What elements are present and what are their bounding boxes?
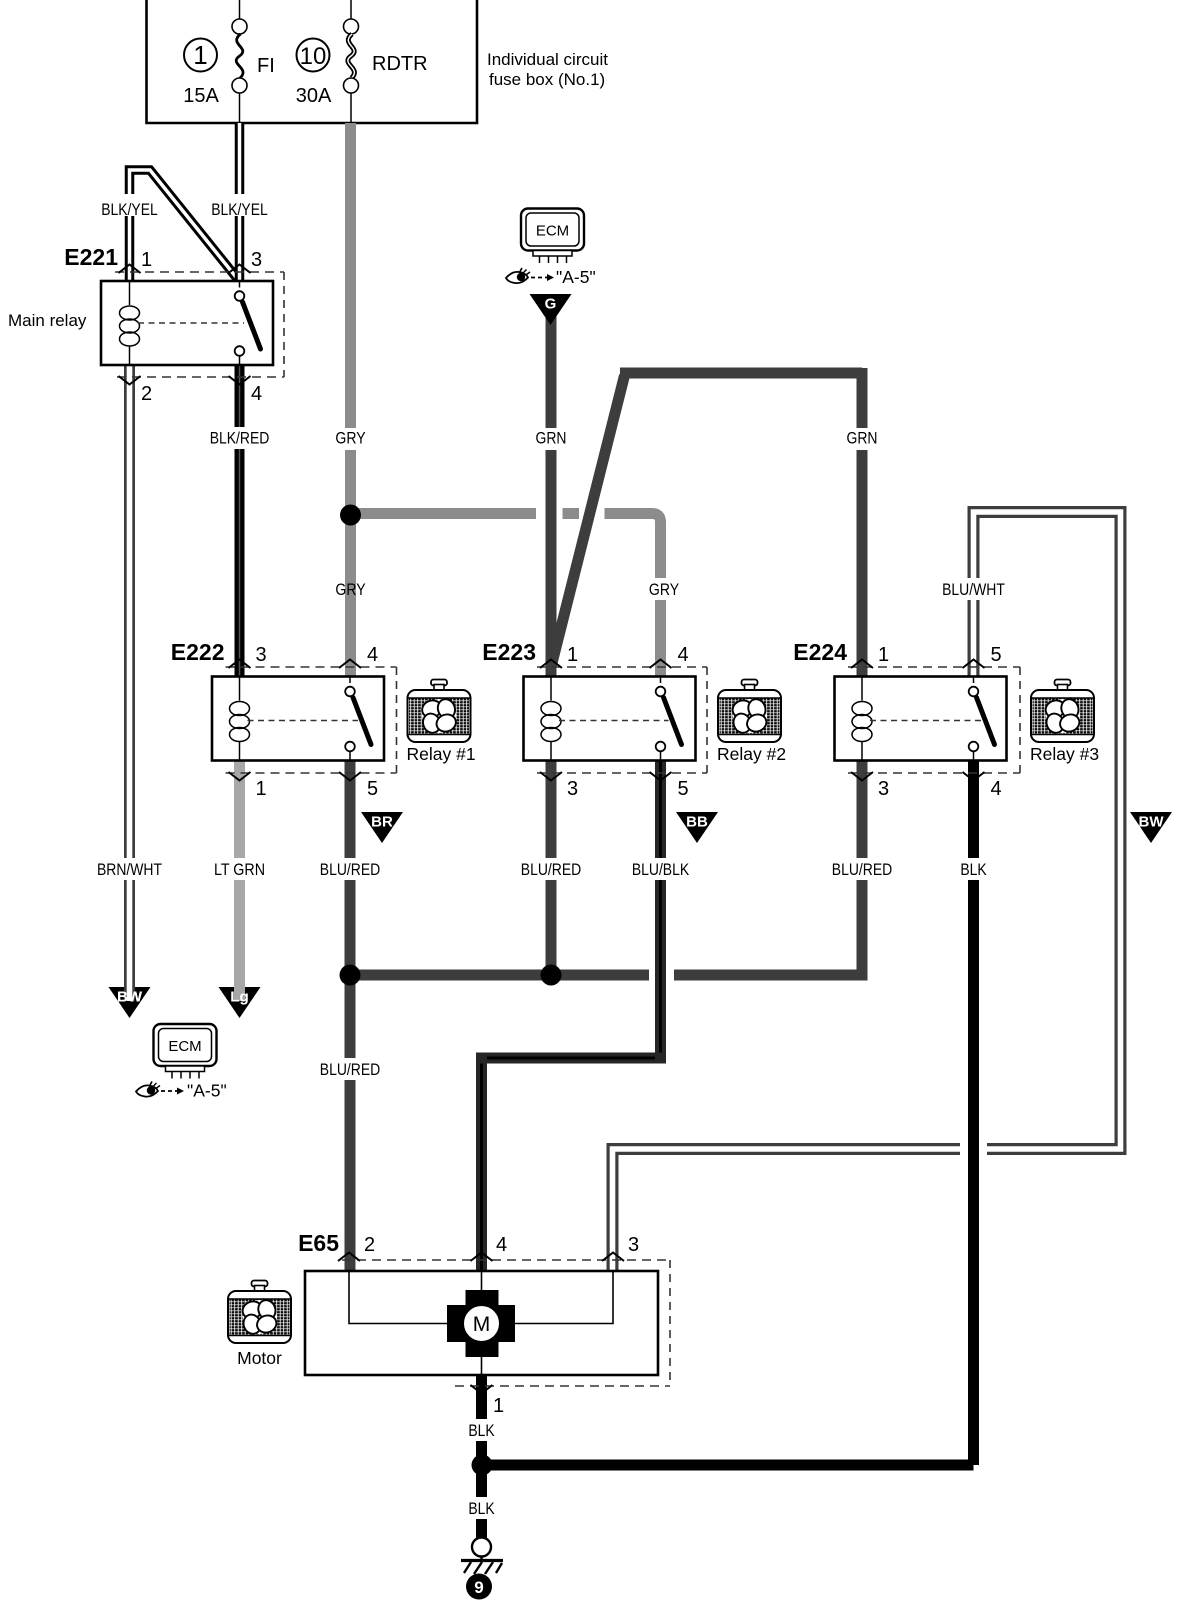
wire GRY: fuse RDTR down to junction and E222 pin4 (335, 123, 365, 676)
svg-text:BLU/RED: BLU/RED (320, 1060, 380, 1079)
eye reference "A-5" (bottom) (136, 1081, 227, 1101)
relay E222 (Relay #1) (171, 639, 397, 800)
svg-text:ECM: ECM (168, 1038, 201, 1055)
svg-text:ECM: ECM (536, 223, 569, 240)
svg-text:4: 4 (367, 644, 378, 666)
svg-text:E221: E221 (64, 244, 118, 270)
svg-text:"A-5": "A-5" (556, 267, 596, 287)
svg-text:Motor: Motor (237, 1348, 282, 1368)
junction node: GRY (340, 505, 361, 526)
radiator icon Relay #2 (717, 680, 786, 765)
wire GRY branch: junction right and down to E223 pin4 (351, 514, 680, 677)
svg-text:E222: E222 (171, 639, 225, 665)
svg-text:5: 5 (367, 778, 378, 800)
wire BLK/YEL: fuse FI to E221 pin3 (211, 123, 268, 281)
svg-text:GRN: GRN (847, 429, 878, 448)
svg-text:4: 4 (496, 1234, 507, 1256)
wire BLK/YEL loop: E221 pin1 up and diagonal to pin3 (101, 170, 240, 282)
svg-text:fuse box (No.1): fuse box (No.1) (489, 70, 605, 89)
svg-text:3: 3 (878, 778, 889, 800)
svg-text:G: G (545, 296, 557, 313)
ground symbol with circled 9 (461, 1538, 503, 1600)
svg-text:BW: BW (117, 989, 143, 1006)
svg-text:BR: BR (371, 814, 393, 831)
motor M symbol (447, 1290, 515, 1357)
svg-text:FI: FI (257, 55, 275, 77)
radiator icon Relay #3 (1030, 680, 1099, 765)
eye reference "A-5" (top) (506, 267, 596, 287)
svg-text:1: 1 (878, 644, 889, 666)
svg-text:5: 5 (678, 778, 689, 800)
svg-text:Relay #2: Relay #2 (717, 744, 786, 764)
motor connector E65 (298, 1230, 670, 1417)
wire BLK: E65 pin1 down to ground (468, 1375, 495, 1538)
relay E223 (Relay #2) (482, 639, 707, 800)
svg-text:Relay #3: Relay #3 (1030, 744, 1099, 764)
wire BRN/WHT: E221 pin2 down to BW triangle (97, 365, 162, 1000)
ECM U1 (bottom-left) (154, 1024, 217, 1079)
connector triangle BW (left) (109, 987, 151, 1018)
svg-text:E65: E65 (298, 1230, 339, 1256)
svg-text:"A-5": "A-5" (187, 1081, 227, 1101)
svg-text:15A: 15A (183, 85, 219, 107)
wire LT GRN: E222 pin1 down to Lg triangle (214, 760, 265, 1000)
svg-text:BLK: BLK (468, 1421, 495, 1440)
svg-text:BLU/RED: BLU/RED (521, 860, 581, 879)
junction node: BLU/RED mid (541, 965, 562, 986)
svg-text:1: 1 (567, 644, 578, 666)
wire BLU/BLK: E223 pin5 down, left, down to E65 pin4 (476, 760, 690, 1271)
svg-text:BLU/RED: BLU/RED (832, 860, 892, 879)
svg-text:2: 2 (141, 383, 152, 405)
motor M internal wiring (349, 1271, 613, 1375)
individual circuit fuse box No.1 (147, 0, 609, 123)
fuse 1 FI 15A (183, 0, 275, 123)
svg-text:4: 4 (678, 644, 689, 666)
svg-text:BRN/WHT: BRN/WHT (97, 860, 162, 879)
svg-text:3: 3 (251, 249, 262, 271)
wire GRN: E223 pin1 diagonal up, across, down to E224 pin1 (551, 368, 878, 676)
svg-text:Relay #1: Relay #1 (407, 744, 476, 764)
radiator icon Motor (228, 1281, 291, 1369)
wire BLU/RED: E222 pin5 down through junction to E65 pin2 (320, 760, 380, 1271)
svg-text:BLK/RED: BLK/RED (210, 429, 270, 448)
svg-text:GRY: GRY (335, 429, 365, 448)
connector triangle Lg (219, 987, 261, 1018)
wire BLK: E224 pin4 down and across to ground junction (482, 760, 987, 1465)
svg-text:E223: E223 (482, 639, 536, 665)
svg-text:RDTR: RDTR (372, 53, 428, 75)
wire BLU/WHT: E224 pin5 up, right, down, left, down to E65 pin3 (613, 512, 1121, 1271)
wire GRN: ECM G triangle down to E223 pin1 (536, 310, 567, 676)
svg-text:BLK: BLK (468, 1499, 495, 1518)
radiator icon Relay #1 (407, 680, 476, 765)
svg-text:30A: 30A (296, 85, 332, 107)
svg-text:Individual circuit: Individual circuit (487, 50, 608, 69)
svg-text:E224: E224 (793, 639, 847, 665)
junction node: BLK ground bus (472, 1455, 493, 1476)
junction node: BLU/RED left (340, 965, 361, 986)
svg-text:BLU/RED: BLU/RED (320, 860, 380, 879)
wire BLU/RED: E223 pin3 down to junction (521, 760, 581, 975)
svg-text:5: 5 (991, 644, 1002, 666)
svg-text:BLU/BLK: BLU/BLK (632, 860, 690, 879)
relay E224 (Relay #3) (793, 639, 1020, 800)
svg-text:4: 4 (991, 778, 1002, 800)
connector triangle BW (right) (1130, 812, 1172, 843)
relay E221 (Main relay) (8, 244, 284, 405)
svg-text:1: 1 (193, 40, 207, 70)
svg-text:3: 3 (256, 644, 267, 666)
svg-text:BLK: BLK (960, 860, 987, 879)
ECM U1 (top) (521, 209, 584, 264)
svg-text:2: 2 (364, 1234, 375, 1256)
svg-text:GRN: GRN (536, 429, 567, 448)
connector triangle G (530, 294, 572, 325)
svg-text:1: 1 (141, 249, 152, 271)
wire BLK/RED: E221 pin4 down to E222 pin3 (210, 365, 270, 676)
connector triangle BR (361, 812, 403, 843)
connector triangle BB (676, 812, 718, 843)
fuse 10 RDTR 30A (296, 0, 428, 123)
svg-text:3: 3 (567, 778, 578, 800)
svg-text:BB: BB (686, 814, 708, 831)
svg-text:BLK/YEL: BLK/YEL (211, 200, 268, 219)
svg-text:Lg: Lg (230, 989, 248, 1006)
wire BLU/RED: E224 pin3 down and across junction bus (350, 760, 892, 975)
svg-text:GRY: GRY (335, 580, 365, 599)
svg-text:LT GRN: LT GRN (214, 860, 265, 879)
svg-text:BLK/YEL: BLK/YEL (101, 200, 158, 219)
svg-text:4: 4 (251, 383, 262, 405)
svg-text:9: 9 (474, 1578, 483, 1597)
svg-text:Main relay: Main relay (8, 311, 87, 330)
svg-text:M: M (473, 1313, 491, 1336)
svg-text:GRY: GRY (649, 580, 679, 599)
svg-text:BLU/WHT: BLU/WHT (942, 580, 1005, 599)
svg-text:1: 1 (493, 1395, 504, 1417)
svg-text:BW: BW (1139, 814, 1165, 831)
svg-text:10: 10 (300, 43, 327, 70)
svg-text:1: 1 (256, 778, 267, 800)
svg-text:3: 3 (628, 1234, 639, 1256)
